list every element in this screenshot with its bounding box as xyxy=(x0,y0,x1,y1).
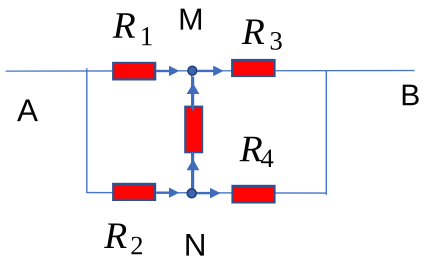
label R2 xyxy=(103,216,143,260)
resistor R3 xyxy=(232,60,274,76)
current arrow after R1 xyxy=(157,66,180,76)
wire M to N vertical xyxy=(191,71,193,194)
resistor R1 xyxy=(113,63,155,80)
resistor R4 xyxy=(233,186,275,203)
svg-text:1: 1 xyxy=(140,20,154,51)
wire bottom horizontal xyxy=(86,192,326,195)
current arrow R5 to M (upper vertical, pointing up) xyxy=(187,77,200,111)
wire left vertical branch xyxy=(86,68,88,192)
svg-text:4: 4 xyxy=(260,143,273,173)
svg-text:2: 2 xyxy=(130,230,143,260)
current arrow after node N xyxy=(196,188,220,199)
svg-text:R: R xyxy=(239,129,263,170)
current arrow after node M xyxy=(197,66,223,77)
svg-text:R: R xyxy=(241,12,265,53)
wire A to B (top horizontal) xyxy=(6,70,415,73)
label R3 xyxy=(241,12,283,56)
svg-text:N: N xyxy=(184,227,207,263)
wire right vertical branch xyxy=(325,71,327,195)
resistor R5 (vertical, between M and N) xyxy=(185,107,202,153)
svg-text:B: B xyxy=(400,79,420,112)
node N xyxy=(187,189,196,198)
resistor R2 xyxy=(113,184,155,200)
current arrow N to R5 (lower vertical, pointing up) xyxy=(187,152,200,189)
label R1 xyxy=(112,6,154,52)
node M xyxy=(188,66,197,75)
svg-text:M: M xyxy=(178,3,203,37)
label R4 xyxy=(239,129,274,173)
svg-text:A: A xyxy=(17,92,38,128)
current arrow after R2 xyxy=(157,188,180,198)
svg-text:R: R xyxy=(103,216,127,257)
svg-text:R: R xyxy=(112,6,136,47)
svg-text:3: 3 xyxy=(269,26,282,56)
